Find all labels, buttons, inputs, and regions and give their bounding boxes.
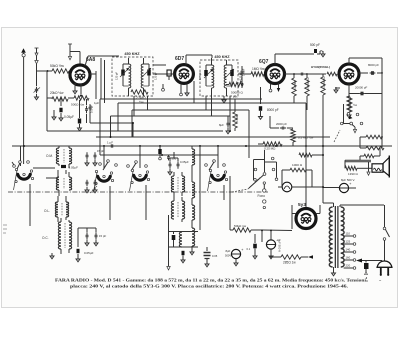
tuning gang section 4: [208, 146, 228, 200]
capacitor 500pF (plate bypass): [310, 43, 325, 57]
svg-text:220: 220: [346, 264, 351, 268]
svg-text:1 µF: 1 µF: [107, 141, 113, 145]
svg-text:1390 Ω: 1390 Ω: [348, 172, 359, 176]
ground (antenna input): [35, 48, 49, 72]
resistor 500Ω ½w (cathode): [71, 96, 89, 107]
svg-text:8000 pF: 8000 pF: [368, 63, 379, 67]
svg-text:125 pF: 125 pF: [198, 72, 202, 80]
mains plug: [377, 261, 392, 283]
resistor tone 2: [360, 137, 384, 150]
wire 6D7 cathode parts: [162, 81, 194, 103]
diode load parts under T2: [222, 96, 230, 103]
svg-text:285Ω 1w: 285Ω 1w: [283, 261, 296, 265]
svg-text:8µF: 8µF: [226, 249, 231, 253]
svg-text:0.5MΩ: 0.5MΩ: [236, 114, 239, 122]
svg-text:O.L.: O.L.: [44, 209, 50, 213]
svg-text:15 pF: 15 pF: [97, 149, 104, 153]
ground (oscillator cathode): [52, 110, 61, 120]
svg-text:110: 110: [346, 232, 351, 236]
wire 6Q7 cathode: [269, 83, 280, 92]
resistor 0.5MΩ (AVC filter): [233, 99, 239, 131]
svg-text:1MΩ ½w: 1MΩ ½w: [252, 67, 265, 71]
ground (output stage): [334, 87, 340, 93]
svg-text:20000 pF: 20000 pF: [355, 86, 367, 90]
transformer tap 160: [344, 256, 356, 262]
capacitor 0.05µF (O.C.): [76, 246, 94, 262]
volume potentiometer 50000Ω: [226, 81, 244, 100]
resistor 2.5MΩ ½w (AVC): [131, 90, 148, 104]
capacitor 1µF (AVC): [89, 101, 100, 123]
svg-text:O.M.: O.M.: [46, 154, 53, 158]
svg-text:placca: 240 V, al catodo della: placca: 240 V, al catodo della 5Y3-G 300…: [70, 284, 348, 289]
svg-text:450 KHZ: 450 KHZ: [124, 52, 140, 56]
wire detector to 6Q7 grid: [238, 74, 266, 80]
svg-text:8000 pF: 8000 pF: [267, 108, 279, 112]
svg-text:500V: 500V: [225, 254, 231, 258]
tube 6A8 converter: [70, 57, 95, 85]
coil oscillator secondary c: [192, 198, 195, 228]
tube HY90 (6V6GL) output: [311, 64, 359, 84]
coil O.L.: [44, 196, 69, 222]
capacitor 1µF (bus inline): [107, 141, 115, 148]
svg-text:6D7: 6D7: [175, 56, 184, 62]
capacitor secondary T2 125pF: [230, 65, 242, 86]
resistor 1000Ω (lamp shunt): [282, 163, 312, 187]
resistor 0.1MΩ: [321, 74, 326, 95]
resistor 50kΩ ½w (6A8 grid): [50, 64, 69, 73]
coil band 2: [56, 170, 71, 196]
capacitor (osc feedback): [78, 100, 82, 131]
capacitor 500 (osc grid): [167, 146, 177, 161]
wire B+ to tone switch: [343, 104, 345, 107]
voltage selector arrow: [356, 259, 382, 263]
svg-text:O.C.: O.C.: [42, 236, 49, 240]
wire grid bus to 6A8: [37, 64, 53, 86]
band switch contacts 4: [205, 160, 226, 170]
svg-text:8µF: 8µF: [219, 123, 224, 127]
svg-text:HY90(6V6GL): HY90(6V6GL): [311, 65, 330, 69]
capacitor 20000pF (cathode): [349, 73, 382, 95]
capacitor secondary T1 125pF: [147, 64, 157, 86]
bus wire B+ screen: [100, 99, 262, 155]
resistor 20kΩ ½w (oscillator): [50, 91, 68, 101]
coil oscillator secondary b: [192, 165, 195, 205]
capacitor 100pF (detector): [241, 66, 246, 76]
transformer tap 125: [344, 240, 356, 246]
tone control switch: [334, 94, 363, 143]
electrolytic 8µF 500V (field): [323, 171, 356, 193]
tuning gang section 2: [94, 146, 114, 220]
svg-text:0.05µF: 0.05µF: [84, 251, 94, 255]
svg-text:pot.: pot.: [233, 95, 238, 99]
coil secondary T1: [141, 58, 149, 96]
capacitor 8000pF (coupling): [259, 87, 279, 119]
wire 6D7 plate to IF2: [186, 55, 212, 65]
coil primary T2: [206, 58, 214, 96]
trimmer capacitor (antenna): [34, 87, 41, 100]
wire phono branch: [246, 146, 254, 160]
band switch contacts 3: [127, 161, 148, 171]
tuning gang section 3: [130, 146, 150, 220]
trimmer capacitors band 2: [85, 180, 97, 193]
tuning arrow IF1 primary: [120, 68, 129, 77]
svg-text:0.05µF: 0.05µF: [180, 160, 189, 164]
coil oscillator 2: [171, 197, 184, 224]
coil oscillator secondary d: [190, 220, 195, 255]
transformer tap 110: [344, 232, 356, 238]
svg-text:140: 140: [346, 248, 351, 252]
svg-text:125 pF: 125 pF: [115, 72, 119, 80]
ground (6D7): [185, 84, 189, 96]
coil primary T1: [123, 58, 131, 96]
resistor 50kΩ 1w (filter): [230, 224, 262, 232]
svg-text:0.5MΩ ½w: 0.5MΩ ½w: [306, 77, 310, 90]
bus wire band-switch: [100, 154, 218, 156]
resistor tone 3: [360, 148, 380, 160]
svg-text:500: 500: [172, 157, 177, 161]
svg-text:500 pF: 500 pF: [310, 43, 320, 47]
coil O.C.: [42, 218, 72, 254]
svg-text:0.25MΩ: 0.25MΩ: [293, 81, 297, 90]
gang dash-dot coupling line: [8, 191, 268, 193]
wire 6Q7 plate top to 500pF: [275, 54, 313, 65]
capacitor primary T2 125pF: [198, 65, 208, 86]
capacitor coupling (6Q7->output): [294, 73, 334, 204]
svg-text:125: 125: [346, 240, 351, 244]
ground (coil O.C.): [50, 252, 61, 259]
wire filter node: [230, 131, 292, 242]
trimmer capacitors O.C.: [78, 228, 106, 246]
wire coupling to output grid: [293, 73, 326, 75]
svg-text:0.1MΩ ½w: 0.1MΩ ½w: [322, 76, 326, 89]
svg-text:½w: ½w: [353, 103, 357, 107]
electrolytic 8µF 500V (input): [225, 243, 244, 266]
svg-text:100pF: 100pF: [242, 68, 246, 76]
capacitor 0.05µF (osc O.C.): [181, 247, 185, 263]
phono jack Fono: [258, 182, 266, 209]
bus wire chassis: [12, 145, 392, 147]
svg-text:8µF 500 V.: 8µF 500 V.: [341, 178, 355, 182]
resistor tone 1: [360, 135, 383, 148]
svg-text:0.1: 0.1: [247, 247, 251, 251]
svg-text:500Ω ½w: 500Ω ½w: [71, 103, 85, 107]
capacitor osc O.C. padder: [172, 232, 176, 248]
svg-text:0.05µF: 0.05µF: [64, 115, 74, 119]
transformer tap 140: [344, 248, 356, 254]
power transformer: [320, 203, 384, 276]
svg-text:2000 pF: 2000 pF: [276, 122, 287, 126]
wire plug to selector: [365, 261, 367, 263]
tuning arrow IF2 primary: [204, 69, 213, 78]
wire IF1 to 6D7 grid: [153, 65, 175, 74]
wire 6A8 plate to IF1: [85, 56, 119, 99]
resistor (tone feed): [299, 153, 324, 157]
resistor 285Ω 1w: [270, 255, 308, 265]
junction dots on buses: [23, 122, 324, 156]
capacitor 0.1µF (filter): [247, 231, 258, 259]
tuning arrow IF2 secondary: [225, 69, 234, 78]
tube 6Q7 detector-audio: [259, 59, 285, 84]
capacitor 0.05µF (O.M.): [59, 165, 78, 170]
ground (6A8 top cap shield): [68, 44, 80, 65]
bus wire B+ output: [132, 110, 249, 158]
band switch contacts 2: [99, 160, 118, 170]
svg-text:0.25 MΩ: 0.25 MΩ: [264, 147, 276, 151]
tuning arrow IF1 secondary: [142, 68, 151, 77]
wire HT arrow: [308, 255, 318, 259]
svg-text:6Q7: 6Q7: [259, 59, 269, 65]
svg-text:Fono: Fono: [258, 194, 266, 198]
bus wire AVC 3: [96, 136, 330, 138]
IF transformer T1 450 KHz (dashed box): [112, 52, 153, 96]
svg-text:0.05: 0.05: [212, 254, 218, 258]
field coil 1390Ω: [345, 166, 372, 176]
phono-radio switch: [232, 150, 278, 192]
capacitor 8µF (AVC): [219, 116, 230, 134]
bus wire B+ plate: [118, 103, 306, 131]
resistor 10kΩ ½w (cathode bias): [347, 88, 352, 118]
tube 5Y3 rectifier: [296, 202, 316, 229]
coil oscillator 1: [171, 172, 184, 197]
capacitor 8000pF (tone): [359, 63, 383, 75]
resistor 1MΩ ½w: [251, 67, 265, 76]
loudspeaker with output transformer: [372, 156, 389, 178]
svg-text:1µF: 1µF: [94, 101, 99, 105]
tuning gang section 1: [14, 158, 37, 214]
wire to 6A8 grid: [69, 70, 71, 72]
coil secondary T2: [224, 60, 232, 96]
coil oscillator 3 O.C.: [169, 227, 199, 247]
wire gang1 feeders: [21, 146, 56, 168]
wire output plate top: [349, 58, 382, 135]
padder capacitors oscillator: [168, 152, 189, 176]
resistor 0.25MΩ plate load: [285, 74, 298, 96]
wire speaker branch: [371, 160, 377, 164]
wire oscillator grid: [47, 71, 74, 131]
wire speaker twin lead: [345, 160, 371, 168]
svg-text:8µF 500 V: 8µF 500 V: [278, 239, 282, 252]
electrolytic 8µF 500V (output): [266, 230, 281, 259]
svg-text:15 pF: 15 pF: [99, 234, 106, 238]
trimmer capacitors O.M.: [85, 146, 104, 166]
wire left coil group: [30, 146, 87, 252]
capacitor primary T1 125pF: [115, 64, 125, 86]
fuse block: [364, 263, 369, 282]
IF transformer T2 450 KHz (dashed box): [200, 55, 238, 96]
svg-text:0.05µF: 0.05µF: [69, 166, 79, 170]
capacitor 0.05µF (oscillator): [59, 98, 74, 121]
wire 6A8 grid return: [70, 74, 71, 76]
resistor grid stopper output: [327, 72, 337, 76]
wire verticals to buses: [12, 56, 306, 207]
wire transformer plate leads: [292, 203, 334, 205]
antenna A: [21, 48, 26, 164]
svg-text:50kΩ ½w: 50kΩ ½w: [50, 64, 64, 68]
mains switch: [383, 205, 389, 261]
resistor 0.5MΩ grid leak: [305, 74, 310, 96]
capacitor 2000 pF: [270, 116, 293, 130]
ground (osc coils): [156, 215, 171, 270]
svg-text:50kΩ 1w: 50kΩ 1w: [234, 224, 247, 228]
resistor 0.25MΩ (audio): [258, 142, 293, 151]
capacitor 0.05 (near gang 3): [158, 146, 161, 160]
wire osc right feeder: [196, 146, 200, 230]
resistor 0.5MΩ ½w (audio): [291, 129, 314, 146]
band switch contacts 1: [12, 146, 29, 171]
bus wire AVC 2: [47, 130, 223, 132]
svg-text:125 pF: 125 pF: [154, 72, 158, 80]
svg-text:1000 Ω: 1000 Ω: [292, 163, 303, 167]
trimmer capacitor oscillator: [199, 247, 218, 267]
wire to rectifier cathode: [292, 216, 296, 231]
coil oscillator secondary a: [192, 146, 195, 182]
wire oscillator group: [162, 96, 224, 224]
svg-text:160: 160: [346, 256, 351, 260]
wire IF1 bottom: [101, 58, 148, 116]
tube 6D7 IF amplifier: [175, 56, 194, 83]
wire 5Y3 plate loop: [292, 186, 324, 229]
svg-text:20kΩ ½w: 20kΩ ½w: [50, 91, 64, 95]
capacitor grid 6D7: [167, 70, 171, 80]
pilot lamp: [278, 182, 323, 192]
bus wire AVC 1: [90, 116, 230, 137]
wire IF2 risers: [212, 86, 233, 116]
capacitor 100pF (padding): [85, 99, 94, 123]
ground (voice coil): [367, 162, 370, 176]
coil O.M. antenna: [46, 146, 72, 168]
transformer tap 220: [344, 264, 356, 270]
svg-text:450 KHZ: 450 KHZ: [214, 55, 230, 59]
wire 6A8 pins: [73, 83, 83, 97]
svg-text:FARA RADIO - Mod. D 541 - Gamm: FARA RADIO - Mod. D 541 - Gamme: da 188 …: [55, 278, 367, 283]
